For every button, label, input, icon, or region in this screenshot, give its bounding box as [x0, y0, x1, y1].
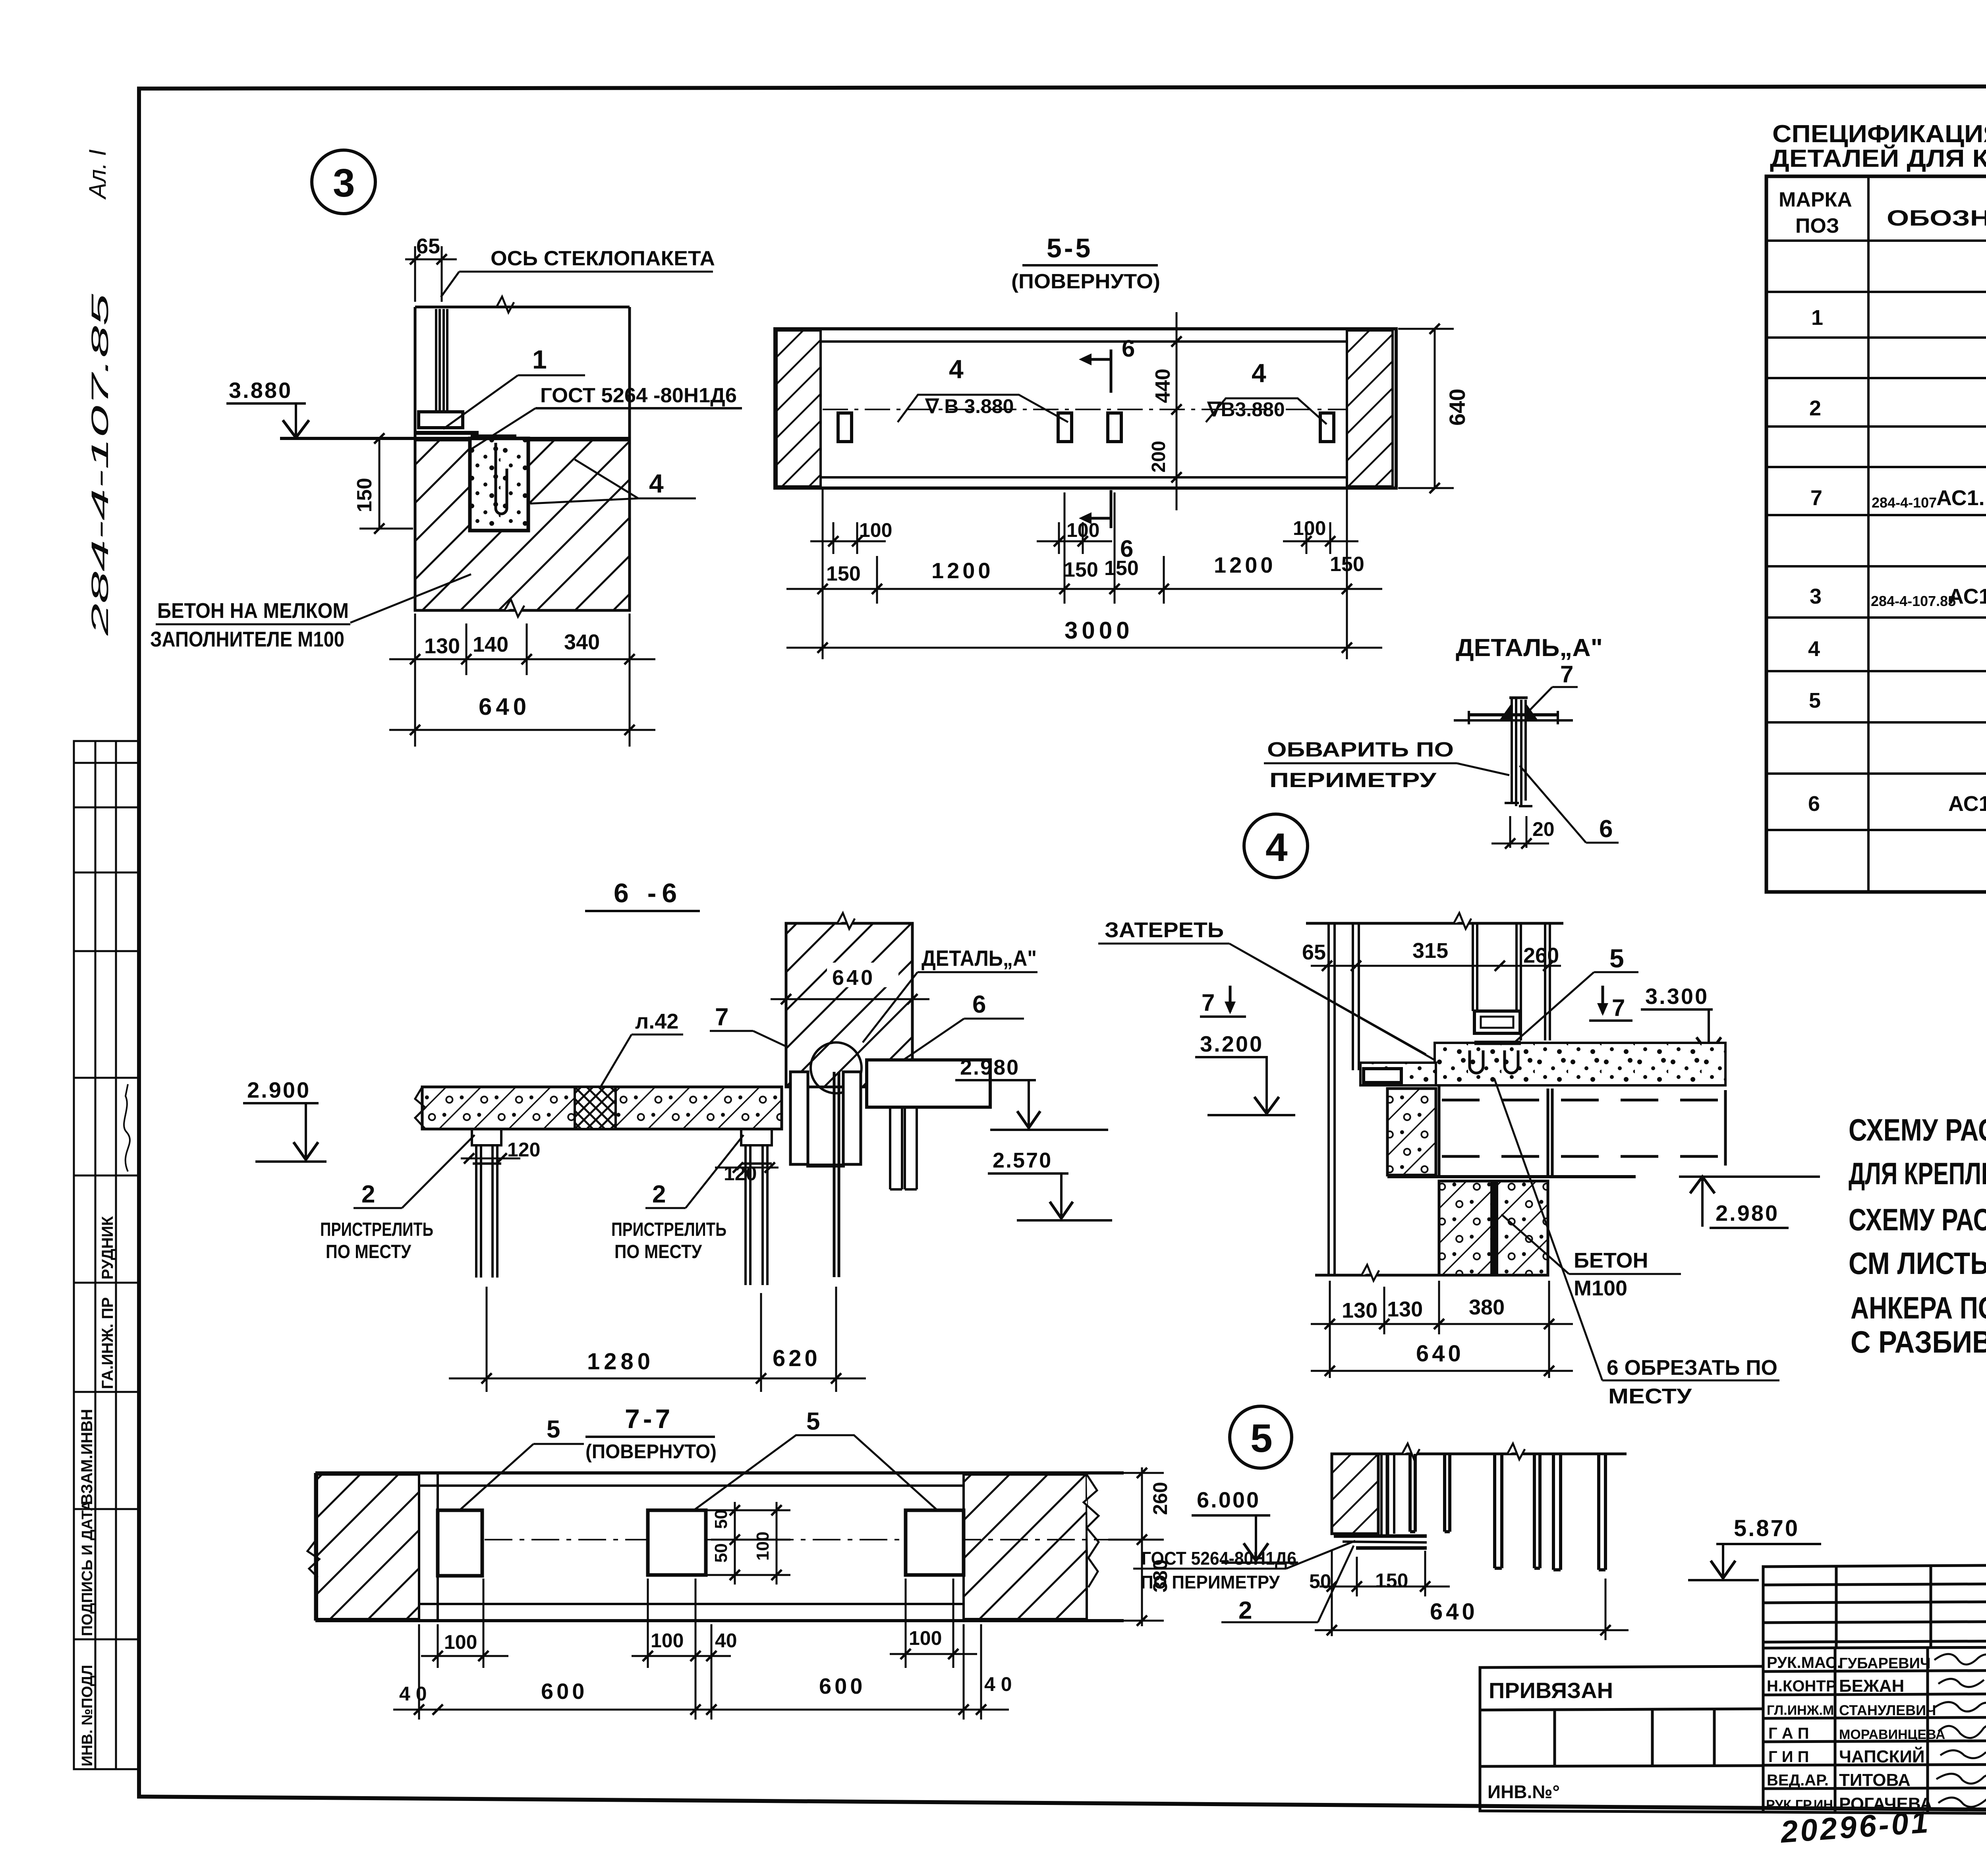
svg-text:ПОЗ: ПОЗ — [1795, 214, 1839, 237]
svg-text:2.570: 2.570 — [993, 1148, 1052, 1172]
section 5-5 anchor 3 — [1108, 413, 1121, 442]
view 4 embedded plate left — [1364, 1069, 1401, 1083]
svg-text:3.300: 3.300 — [1645, 984, 1709, 1009]
svg-text:ДЕТАЛЬ„А": ДЕТАЛЬ„А" — [1456, 634, 1603, 662]
svg-text:3: 3 — [1810, 585, 1822, 608]
svg-text:∇В3.880: ∇В3.880 — [1207, 398, 1285, 421]
section 5-5 left wall hatch — [777, 330, 821, 486]
view 3 floor line — [280, 437, 630, 440]
section 5-5 cut mark 6 top — [1110, 349, 1113, 393]
svg-text:МАРКА: МАРКА — [1779, 188, 1852, 211]
svg-text:АС1. ИЗ-19. 00: АС1. ИЗ-19. 00 — [1936, 486, 1986, 510]
svg-text:СТАНУЛЕВИЧ: СТАНУЛЕВИЧ — [1839, 1702, 1936, 1718]
svg-text:150: 150 — [1064, 558, 1098, 581]
view 3 wall outline — [415, 307, 630, 610]
section 7-7 right dims 260 380 — [1108, 1467, 1164, 1626]
svg-text:ПЕРИМЕТРУ: ПЕРИМЕТРУ — [1269, 769, 1437, 792]
spec table rows text — [1808, 249, 1986, 878]
svg-text:4 0: 4 0 — [399, 1683, 427, 1705]
section 6-6 window post 1 — [472, 1129, 501, 1278]
view 4 sill box — [1474, 1011, 1520, 1033]
svg-text:284-4-107.85: 284-4-107.85 — [87, 293, 113, 636]
svg-text:РУК.ГР.ИН: РУК.ГР.ИН — [1766, 1797, 1833, 1812]
svg-text:1: 1 — [1811, 306, 1823, 330]
view 5 base plates — [1334, 1534, 1427, 1538]
svg-text:ПО МЕСТУ: ПО МЕСТУ — [326, 1241, 411, 1262]
section 6-6 bottom dims 1280 620 — [449, 1287, 866, 1392]
section 7-7 anchor plate 2 — [648, 1510, 706, 1575]
svg-text:1200: 1200 — [1214, 552, 1276, 577]
svg-text:ГОСТ 5264-80Н1Д6: ГОСТ 5264-80Н1Д6 — [1142, 1548, 1296, 1569]
title block signatures — [1934, 1654, 1986, 1807]
svg-text:ПРИСТРЕЛИТЬ: ПРИСТРЕЛИТЬ — [611, 1219, 726, 1240]
svg-text:6: 6 — [1808, 792, 1820, 816]
view 3 hatch bottom break — [504, 599, 524, 617]
svg-text:(ПОВЕРНУТО): (ПОВЕРНУТО) — [1011, 270, 1160, 293]
svg-text:6 ОБРЕЗАТЬ ПО: 6 ОБРЕЗАТЬ ПО — [1607, 1356, 1777, 1380]
section 7-7 anchor plate 1 — [438, 1510, 482, 1576]
svg-text:ПО ПЕРИМЕТРУ: ПО ПЕРИМЕТРУ — [1141, 1572, 1280, 1592]
view 3 dim 640 — [389, 725, 655, 735]
view 4 dims 130 130 380 — [1311, 1281, 1573, 1378]
svg-text:ОБВАРИТЬ ПО: ОБВАРИТЬ ПО — [1267, 738, 1454, 761]
section 7-7 inner dims 50 50 100 — [706, 1502, 790, 1585]
detail A plate — [1454, 711, 1573, 724]
svg-text:200: 200 — [1148, 441, 1169, 473]
svg-text:40: 40 — [715, 1629, 737, 1652]
svg-text:1200: 1200 — [931, 558, 994, 583]
svg-text:ГОСТ 5264 -80Н1Д6: ГОСТ 5264 -80Н1Д6 — [540, 384, 737, 407]
section 7-7 centerline — [438, 1539, 1108, 1540]
svg-text:5: 5 — [1250, 1416, 1273, 1461]
svg-text:С РАЗБИВКОЙ НА ЛИСТЕ 33.: С РАЗБИВКОЙ НА ЛИСТЕ 33. — [1851, 1324, 1986, 1359]
title block grid — [1480, 1561, 1986, 1814]
section 6-6 window post 2 — [741, 1129, 772, 1285]
svg-text:∇ В 3.880: ∇ В 3.880 — [925, 395, 1014, 417]
section 5-5 anchor 1 — [838, 413, 852, 442]
svg-text:7: 7 — [1810, 486, 1822, 510]
svg-text:6.000: 6.000 — [1197, 1487, 1260, 1512]
section 7-7 left wall hatch — [317, 1475, 419, 1619]
section 5-5 cut mark 6 bottom — [1110, 490, 1113, 528]
svg-text:620: 620 — [773, 1345, 821, 1371]
notes text block — [1849, 1112, 1986, 1359]
section 7-7 left break — [307, 1541, 319, 1577]
svg-text:ГЛ.ИНЖ.М: ГЛ.ИНЖ.М — [1767, 1703, 1834, 1718]
svg-text:5.870: 5.870 — [1734, 1515, 1799, 1541]
section 7-7 dim row 600 600 — [393, 1624, 1009, 1720]
left stamp column — [74, 741, 138, 1769]
svg-text:ДЕТАЛЬ„А": ДЕТАЛЬ„А" — [922, 946, 1037, 971]
svg-text:БЕЖАН: БЕЖАН — [1839, 1676, 1904, 1696]
svg-text:Г И П: Г И П — [1768, 1748, 1809, 1766]
svg-text:100: 100 — [651, 1629, 684, 1652]
svg-text:Ал. I: Ал. I — [84, 149, 111, 200]
svg-text:ВЗАМ.ИНВН: ВЗАМ.ИНВН — [78, 1409, 96, 1505]
svg-text:640: 640 — [1430, 1599, 1478, 1625]
svg-text:5: 5 — [806, 1408, 820, 1435]
view 4 U anchor 2 — [1505, 1050, 1518, 1073]
svg-text:6: 6 — [972, 991, 986, 1018]
svg-text:БЕТОН НА МЕЛКОМ: БЕТОН НА МЕЛКОМ — [157, 599, 349, 623]
svg-text:315: 315 — [1412, 939, 1448, 963]
view 3 dim 65 — [405, 246, 457, 302]
svg-text:20: 20 — [1532, 818, 1555, 840]
section 7-7 anchor plate 3 — [906, 1510, 964, 1575]
svg-text:7: 7 — [1612, 994, 1625, 1021]
view 4 left pier — [1387, 1089, 1436, 1175]
view 5 corner pier hatch — [1332, 1454, 1378, 1534]
svg-text:50: 50 — [711, 1509, 731, 1529]
view 5 top edge — [1332, 1453, 1627, 1455]
svg-text:2: 2 — [1809, 396, 1821, 420]
svg-text:5: 5 — [547, 1416, 560, 1443]
svg-text:150: 150 — [353, 478, 376, 512]
svg-text:4: 4 — [949, 354, 964, 384]
svg-text:АНКЕРА ПОЗ.6 УСТАНАВЛИВАТЬ В С: АНКЕРА ПОЗ.6 УСТАНАВЛИВАТЬ В СООТВЕТСТВИ… — [1851, 1290, 1986, 1325]
svg-text:Н.КОНТР: Н.КОНТР — [1767, 1677, 1837, 1695]
svg-text:6: 6 — [1122, 335, 1135, 362]
view 4 floor line — [1315, 1274, 1549, 1277]
svg-text:ВЕД.АР.: ВЕД.АР. — [1767, 1772, 1829, 1789]
svg-text:130: 130 — [424, 634, 460, 658]
view 3 dims 130 140 340 — [389, 614, 655, 747]
section 6-6 right beam — [867, 1060, 990, 1107]
detail A weld fillets — [1500, 703, 1538, 720]
view 4 elevation 2.980 — [1679, 1175, 1820, 1178]
svg-text:2.980: 2.980 — [960, 1056, 1020, 1079]
svg-text:6: 6 — [1599, 815, 1613, 843]
view 4 U anchor 1 — [1470, 1050, 1483, 1073]
svg-text:7: 7 — [715, 1004, 728, 1031]
section 6-6 slab left break — [415, 1087, 425, 1129]
svg-text:3.880: 3.880 — [229, 378, 292, 403]
svg-text:ПРИСТРЕЛИТЬ: ПРИСТРЕЛИТЬ — [320, 1219, 433, 1240]
section 5-5 dim 3000 — [786, 643, 1382, 653]
view 4 lintel dashed — [1439, 1085, 1725, 1178]
svg-text:100: 100 — [753, 1532, 773, 1561]
svg-text:ГА.ИНЖ. ПР: ГА.ИНЖ. ПР — [99, 1297, 116, 1389]
section 7-7 right break — [1084, 1475, 1099, 1587]
svg-text:СХЕМУ РАСПОЛОЖЕНИЯ ЭЛЕМЕНТОВ П: СХЕМУ РАСПОЛОЖЕНИЯ ЭЛЕМЕНТОВ ПЕРЕМЫЧЕК — [1849, 1202, 1986, 1237]
svg-text:130: 130 — [1342, 1299, 1377, 1322]
view 4 wall verticals — [1329, 923, 1359, 1274]
svg-text:СПЕЦИФИКАЦИЯ К СХЕМЕ РАСПОЛОЖЕ: СПЕЦИФИКАЦИЯ К СХЕМЕ РАСПОЛОЖЕНИЯ ЗАКЛАД… — [1772, 120, 1986, 148]
title block names — [1839, 1655, 1945, 1814]
svg-text:ГУБАРЕВИЧ: ГУБАРЕВИЧ — [1839, 1655, 1931, 1672]
svg-text:М100: М100 — [1574, 1276, 1627, 1300]
section 5-5 main dim row — [786, 488, 1382, 659]
svg-text:5: 5 — [1809, 689, 1821, 712]
svg-text:284-4-107.85: 284-4-107.85 — [1871, 593, 1956, 609]
svg-text:МОРАВИНЦЕВА: МОРАВИНЦЕВА — [1839, 1727, 1945, 1742]
svg-text:150: 150 — [826, 562, 861, 585]
svg-text:РУДНИК: РУДНИК — [99, 1216, 116, 1280]
svg-text:л.42: л.42 — [635, 1009, 678, 1033]
svg-text:284-4-107: 284-4-107 — [1872, 494, 1937, 511]
svg-text:4: 4 — [649, 469, 664, 498]
svg-text:100: 100 — [1066, 519, 1099, 541]
svg-text:5: 5 — [1609, 944, 1624, 973]
svg-text:150: 150 — [1330, 553, 1364, 576]
view 3 anchor plate — [415, 431, 479, 435]
section 5-5 anchor 2 — [1058, 413, 1072, 442]
svg-text:ИНВ. №ПОДЛ: ИНВ. №ПОДЛ — [79, 1665, 96, 1766]
section 5-5 dim 440 200 — [1171, 312, 1182, 510]
detail A dim 20 — [1491, 816, 1549, 849]
section 6-6 column — [786, 923, 912, 1087]
svg-text:2.980: 2.980 — [1716, 1200, 1779, 1226]
svg-text:50: 50 — [711, 1543, 731, 1563]
svg-text:2.900: 2.900 — [247, 1077, 311, 1102]
view 4 window frame verticals — [1473, 923, 1550, 1040]
detail A anchor rod — [1505, 698, 1532, 806]
section 7-7 beam outline — [315, 1473, 1124, 1621]
svg-text:ПОДПИСЬ И ДАТА: ПОДПИСЬ И ДАТА — [79, 1500, 96, 1636]
section 6-6 column dim 640 — [827, 963, 898, 987]
svg-text:65: 65 — [1302, 940, 1326, 964]
spec table grid — [1766, 176, 1986, 892]
svg-text:3000: 3000 — [1064, 617, 1133, 644]
svg-text:ОСЬ СТЕКЛОПАКЕТА: ОСЬ СТЕКЛОПАКЕТА — [491, 247, 715, 270]
svg-text:АС1.ИЗ-18.00: АС1.ИЗ-18.00 — [1948, 792, 1986, 816]
svg-text:260: 260 — [1149, 1482, 1171, 1515]
svg-text:4: 4 — [1252, 358, 1266, 388]
svg-text:ИНВ.№°: ИНВ.№° — [1488, 1781, 1560, 1802]
section 7-7 right wall hatch — [964, 1475, 1087, 1619]
svg-text:130: 130 — [1387, 1297, 1423, 1321]
view 3 dim 150 — [359, 433, 413, 534]
view 5 steel angle — [1381, 1454, 1394, 1535]
section 5-5 right wall hatch — [1347, 330, 1393, 486]
svg-text:100: 100 — [1293, 517, 1326, 539]
svg-text:640: 640 — [1445, 389, 1470, 426]
view 3 pocket anchor rod — [496, 443, 507, 514]
section 6-6 anchor post under column — [790, 1072, 861, 1277]
view 4 cut mark 7 right — [1602, 986, 1604, 1013]
svg-text:100: 100 — [444, 1631, 477, 1653]
view 4 dims 65 315 260 — [1311, 961, 1561, 971]
svg-text:ОБОЗНАЧЕНИЕ: ОБОЗНАЧЕНИЕ — [1887, 205, 1986, 230]
svg-text:600: 600 — [541, 1679, 587, 1704]
section 5-5 dim 640 right — [1398, 324, 1454, 493]
svg-text:600: 600 — [819, 1673, 865, 1698]
view 3 marker circle — [312, 150, 375, 214]
view 3 wall hatch — [415, 440, 630, 610]
svg-text:БЕТОН: БЕТОН — [1574, 1249, 1648, 1272]
svg-text:ТИТОВА: ТИТОВА — [1839, 1770, 1911, 1790]
stamp signature — [124, 1084, 130, 1172]
svg-text:100: 100 — [859, 519, 892, 541]
view 3 anchor pocket — [470, 438, 528, 531]
view 5 dim 640 — [1315, 1579, 1629, 1640]
svg-text:ДЛЯ КРЕПЛЕНИЯ ВИТРАЖЕЙ СМ. ЛИС: ДЛЯ КРЕПЛЕНИЯ ВИТРАЖЕЙ СМ. ЛИСТ 33 — [1849, 1156, 1986, 1191]
section 5-5 anchor 4 — [1320, 413, 1334, 442]
svg-text:440: 440 — [1151, 369, 1175, 403]
section 5-5 centerline — [823, 409, 1347, 410]
svg-text:380: 380 — [1469, 1295, 1505, 1319]
svg-text:3.200: 3.200 — [1200, 1031, 1263, 1056]
view 4 lower pier — [1439, 1181, 1548, 1275]
svg-text:4: 4 — [1265, 825, 1288, 870]
view 5 marker circle — [1230, 1406, 1292, 1468]
svg-text:1280: 1280 — [587, 1349, 654, 1374]
svg-text:7: 7 — [1560, 661, 1573, 687]
svg-text:ЗАПОЛНИТЕЛЕ М100: ЗАПОЛНИТЕЛЕ М100 — [150, 627, 344, 651]
svg-text:5-5: 5-5 — [1047, 233, 1093, 263]
view 5 window mullions — [1410, 1454, 1605, 1570]
svg-text:65: 65 — [416, 234, 440, 258]
svg-text:РУК.МАС.: РУК.МАС. — [1767, 1654, 1841, 1671]
view 4 wall top edge — [1306, 922, 1563, 925]
section 6-6 insulation block — [575, 1087, 616, 1129]
svg-text:СХЕМУ РАСПОЛОЖЕНИЯ ЗАКЛАДНЫХ Д: СХЕМУ РАСПОЛОЖЕНИЯ ЗАКЛАДНЫХ ДЕТАЛЕЙ — [1849, 1112, 1986, 1147]
svg-text:ЧАПСКИЙ: ЧАПСКИЙ — [1839, 1746, 1925, 1766]
svg-text:640: 640 — [1416, 1341, 1464, 1366]
view 3 break mark on wall top — [496, 297, 514, 313]
svg-text:ПО МЕСТУ: ПО МЕСТУ — [614, 1241, 702, 1262]
svg-text:1: 1 — [532, 345, 547, 374]
svg-text:СМ ЛИСТЫ 69.70.: СМ ЛИСТЫ 69.70. — [1849, 1246, 1986, 1281]
svg-text:ДЕТАЛЕЙ ДЛЯ КРЕПЛЕНИЯ ВИТРАЖЕЙ: ДЕТАЛЕЙ ДЛЯ КРЕПЛЕНИЯ ВИТРАЖЕЙ И ТАМБУРА — [1770, 145, 1986, 172]
svg-text:2: 2 — [652, 1181, 666, 1208]
section 5-5 mini dims 100 — [810, 522, 1358, 554]
svg-text:340: 340 — [564, 630, 600, 654]
svg-text:150: 150 — [1104, 557, 1139, 580]
view 4 mortar band — [1435, 1043, 1725, 1085]
view 4 marker circle — [1244, 814, 1308, 878]
svg-text:6 -6: 6 -6 — [614, 878, 682, 908]
svg-text:Г А П: Г А П — [1768, 1725, 1809, 1742]
view 4 concrete seam — [1490, 1181, 1498, 1275]
svg-text:7-7: 7-7 — [625, 1404, 673, 1434]
svg-text:140: 140 — [473, 633, 508, 656]
spec table header texts — [1779, 188, 1986, 237]
svg-text:АС1. ИЗ-13.00: АС1. ИЗ-13.00 — [1948, 585, 1986, 608]
title block role labels — [1766, 1654, 1841, 1812]
svg-text:(ПОВЕРНУТО): (ПОВЕРНУТО) — [585, 1440, 717, 1463]
section 5-5 beam outline — [775, 329, 1396, 488]
svg-text:4: 4 — [1808, 637, 1820, 661]
section 7-7 mini dims 100 row — [421, 1579, 977, 1720]
svg-text:640: 640 — [479, 693, 530, 720]
svg-text:ЗАТЕРЕТЬ: ЗАТЕРЕТЬ — [1105, 918, 1224, 942]
svg-text:3: 3 — [333, 161, 355, 205]
view 4 dim 640 — [1311, 1366, 1573, 1376]
section 6-6 floor slab — [422, 1087, 782, 1129]
view 3 glass unit — [436, 309, 447, 412]
svg-text:150: 150 — [1375, 1569, 1408, 1592]
svg-text:100: 100 — [909, 1627, 942, 1649]
svg-text:7: 7 — [1202, 989, 1215, 1016]
svg-text:4 0: 4 0 — [984, 1673, 1012, 1695]
view 3 sill box — [419, 412, 463, 428]
section 6-6 detail circle — [811, 1042, 862, 1093]
svg-text:МЕСТУ: МЕСТУ — [1608, 1384, 1692, 1408]
svg-text:2: 2 — [361, 1181, 375, 1208]
svg-text:2: 2 — [1238, 1597, 1252, 1624]
view 4 lintel bottom — [1387, 1175, 1636, 1178]
view 4 plate under sill — [1474, 1041, 1521, 1045]
svg-text:640: 640 — [832, 966, 875, 990]
svg-text:260: 260 — [1523, 944, 1559, 967]
svg-text:ПРИВЯЗАН: ПРИВЯЗАН — [1489, 1678, 1613, 1703]
